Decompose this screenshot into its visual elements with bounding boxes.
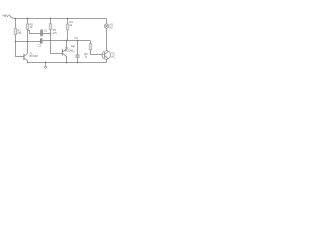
resistor R3 <box>49 24 52 30</box>
lamp H1 <box>104 24 108 28</box>
wire right drop to lamp <box>106 19 108 24</box>
resistor R4 <box>66 24 69 30</box>
wire R4 branch from rail <box>67 19 69 25</box>
svg-text:C2: C2 <box>38 43 42 47</box>
svg-text:+: + <box>73 49 75 53</box>
svg-text:10µ: 10µ <box>71 44 76 48</box>
wire R5 to Q3 base <box>91 50 102 55</box>
wire R4 to collector node <box>67 30 69 41</box>
transistor Q1 <box>24 54 28 63</box>
svg-text:C3: C3 <box>74 36 78 40</box>
wire C1 line right <box>43 33 51 35</box>
wire C1 line with left jog <box>28 31 41 34</box>
wire Q3 emitter to bottom rail <box>106 59 108 62</box>
wire R1 to Q1 base corner <box>16 35 24 57</box>
svg-text:BC548: BC548 <box>30 54 39 58</box>
wire bottom ground rail <box>28 62 107 64</box>
transistor Q3 in circle <box>102 51 111 60</box>
wire R3 to Q2 base <box>51 29 63 53</box>
wire C2 line right segment <box>42 40 90 42</box>
wire lamp to Q3 collector <box>106 28 108 51</box>
wire C3 branch down <box>77 41 79 55</box>
svg-text:27k: 27k <box>53 31 58 35</box>
svg-text:27k: 27k <box>17 31 22 35</box>
wire R1 branch from rail <box>15 19 17 29</box>
svg-text:9V: 9V <box>110 26 113 30</box>
wire R2 branch from rail <box>27 19 29 25</box>
svg-text:C1: C1 <box>44 29 48 33</box>
resistor R5 <box>89 44 92 50</box>
node +9V supply lead <box>12 17 16 20</box>
wire R5 corner from collector line <box>90 41 92 44</box>
svg-text:+9V: +9V <box>2 14 9 18</box>
resistor R2 <box>26 24 29 29</box>
wire R2 to Q1 collector <box>27 29 29 54</box>
wire Q2 emitter lead <box>66 57 68 63</box>
svg-text:AC: AC <box>111 55 115 59</box>
node supply arrow <box>9 15 11 18</box>
wire C2 line left segment <box>16 41 41 43</box>
capacitor C2 <box>41 38 42 43</box>
capacitor C3 electrolytic <box>75 55 79 57</box>
svg-text:BC548: BC548 <box>65 49 74 53</box>
wire top supply rail <box>16 18 107 20</box>
capacitor C1 <box>41 30 42 37</box>
wire R3 branch from rail <box>50 19 52 24</box>
junction dots <box>15 18 79 64</box>
ground <box>44 67 47 69</box>
ground stub <box>45 63 47 67</box>
wire C3 bottom lead <box>77 57 79 62</box>
wire Q2 collector lead <box>66 41 68 49</box>
transistor Q2 <box>63 49 67 57</box>
resistor R1 <box>14 29 17 35</box>
